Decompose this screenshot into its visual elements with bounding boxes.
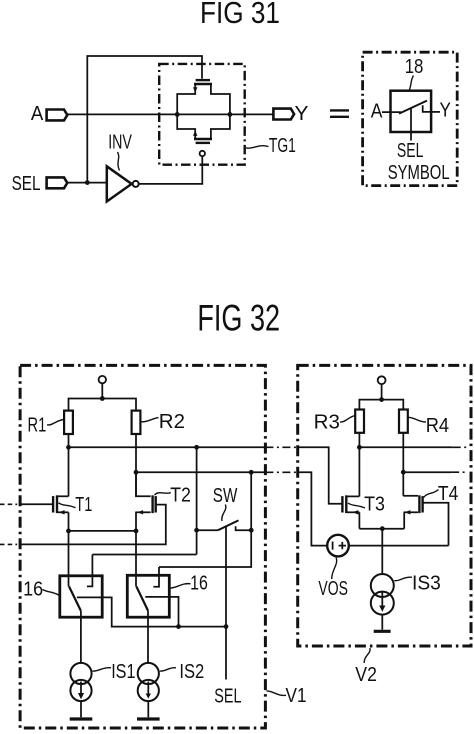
svg-text:Y: Y (295, 103, 309, 125)
svg-text:FIG 32: FIG 32 (197, 298, 280, 339)
svg-text:FIG 31: FIG 31 (200, 0, 280, 30)
svg-text:T3: T3 (364, 494, 385, 516)
svg-text:SYMBOL: SYMBOL (388, 162, 450, 184)
svg-text:VOS: VOS (318, 578, 348, 600)
svg-text:SW: SW (213, 485, 238, 507)
svg-text:A: A (371, 101, 383, 123)
svg-text:T4: T4 (438, 483, 458, 505)
svg-text:16: 16 (190, 572, 208, 594)
svg-text:R2: R2 (159, 411, 185, 433)
svg-text:T2: T2 (170, 484, 191, 506)
svg-text:V1: V1 (286, 685, 307, 707)
svg-text:INV: INV (108, 132, 132, 154)
svg-text:SEL: SEL (397, 140, 424, 162)
svg-text:R4: R4 (426, 415, 449, 437)
svg-text:T1: T1 (75, 494, 92, 516)
svg-text:IS1: IS1 (111, 661, 135, 683)
svg-text:TG1: TG1 (269, 135, 296, 157)
svg-text:SEL: SEL (12, 173, 41, 195)
svg-text:SEL: SEL (214, 686, 241, 708)
svg-text:IS3: IS3 (412, 572, 441, 594)
svg-text:Y: Y (440, 99, 451, 121)
svg-text:R1: R1 (28, 414, 47, 436)
svg-text:IS2: IS2 (179, 661, 204, 683)
svg-text:A: A (31, 103, 44, 125)
svg-text:V2: V2 (355, 664, 377, 686)
svg-text:18: 18 (405, 56, 424, 78)
svg-text:16: 16 (23, 578, 43, 600)
svg-text:R3: R3 (314, 412, 340, 434)
